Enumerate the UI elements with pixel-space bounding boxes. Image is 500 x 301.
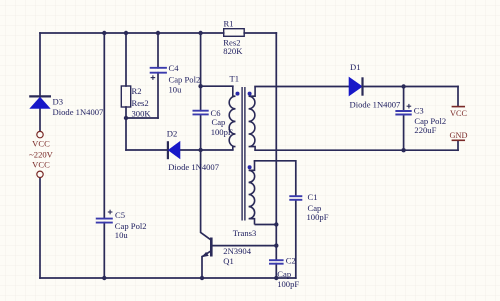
- power port GND bar: [452, 139, 465, 141]
- wire C2 top: [275, 246, 277, 261]
- svg-text:C3: C3: [414, 106, 424, 116]
- svg-text:10u: 10u: [115, 230, 129, 240]
- svg-text:100pF: 100pF: [307, 212, 329, 222]
- transformer T1 core: [242, 87, 245, 221]
- svg-text:10u: 10u: [169, 85, 183, 95]
- wire C3 top: [403, 87, 405, 112]
- wire primary bottom lead: [201, 149, 233, 151]
- wire C4 bottom lead: [157, 73, 159, 118]
- svg-text:Cap Pol2: Cap Pol2: [169, 74, 201, 84]
- wire D3 anode to terminal circle: [39, 108, 41, 131]
- svg-text:R2: R2: [132, 86, 142, 96]
- wire feedback winding bottom lead: [255, 224, 277, 226]
- svg-text:D3: D3: [53, 97, 64, 107]
- svg-text:100pF: 100pF: [211, 127, 233, 137]
- svg-text:100pF: 100pF: [277, 279, 299, 289]
- T1 polarity dot primary: [236, 92, 240, 96]
- svg-text:D2: D2: [167, 129, 178, 139]
- svg-text:D1: D1: [350, 62, 361, 72]
- power port VCC bar: [452, 106, 465, 108]
- capacitor C1: [289, 196, 302, 200]
- wire C5 branch top: [103, 33, 105, 219]
- junction bottom rail emitter: [200, 276, 204, 280]
- junction bottom rail C5: [102, 276, 106, 280]
- wire Q1 base to R1 drop: [211, 245, 276, 247]
- wire C5 bottom to rail: [103, 223, 105, 278]
- svg-text:VCC: VCC: [32, 139, 50, 149]
- diode D3: [29, 96, 51, 108]
- wire bottom rail: [40, 277, 296, 279]
- plus sign C3: [407, 104, 412, 109]
- svg-text:T1: T1: [230, 73, 240, 83]
- capacitor C2: [269, 260, 284, 264]
- wire junction down to D2 row: [125, 118, 127, 150]
- svg-text:C1: C1: [308, 192, 318, 202]
- wire D2 row right to C6 junction: [180, 149, 200, 151]
- capacitor C3: [395, 111, 411, 115]
- wire C6 bottom to junction: [200, 114, 202, 150]
- svg-text:VCC: VCC: [450, 109, 468, 118]
- wire emitter down to rail: [201, 257, 203, 278]
- wire C1 bottom riser from rail: [295, 200, 297, 278]
- wire junction to C4 bottom: [126, 117, 158, 119]
- svg-text:GND: GND: [450, 131, 468, 140]
- resistor R1: [224, 29, 245, 37]
- diode D2: [168, 141, 180, 159]
- svg-text:2N3904: 2N3904: [223, 246, 251, 256]
- svg-text:Diode 1N4007: Diode 1N4007: [350, 99, 402, 109]
- wire secondary top lead to D1: [255, 86, 349, 88]
- svg-text:820K: 820K: [223, 46, 243, 56]
- svg-text:300K: 300K: [132, 109, 152, 119]
- wire R2 bottom to junction: [125, 107, 127, 118]
- svg-text:220uF: 220uF: [414, 125, 436, 135]
- junction top rail C5: [102, 31, 106, 35]
- wire collector from C6 junction to Q1: [201, 150, 212, 240]
- wire R2 top: [125, 33, 127, 86]
- transformer T1 primary winding: [229, 86, 235, 150]
- terminal circle upper (AC input): [37, 131, 43, 137]
- wire lower winding top lead to C1: [255, 161, 296, 196]
- junction C6 bottom / D2 / primary: [198, 148, 202, 152]
- diode D1: [349, 77, 363, 96]
- svg-text:VCC: VCC: [32, 160, 50, 170]
- wire top rail right segment R1 to corner: [244, 32, 276, 34]
- capacitor C5: [96, 219, 113, 223]
- junction R2/C4: [124, 116, 128, 120]
- T1 polarity dot secondary: [248, 92, 252, 96]
- wire bottom right row: [255, 149, 458, 151]
- svg-text:~220V: ~220V: [29, 149, 54, 159]
- wire C4 top: [157, 33, 159, 68]
- plus sign C5: [108, 210, 113, 215]
- wire R1 drop vertical: [275, 33, 277, 246]
- capacitor C4: [150, 68, 167, 73]
- svg-text:Cap: Cap: [277, 269, 291, 279]
- wire C6 branch top: [200, 33, 202, 111]
- capacitor C6: [193, 111, 209, 115]
- wire C2 bottom to rail: [275, 264, 277, 278]
- transformer T1 secondary upper winding: [249, 87, 256, 151]
- junction feedback winding / base drop: [274, 222, 278, 226]
- plus sign C4: [151, 75, 156, 80]
- wire D1 cathode to VCC corner: [363, 86, 459, 88]
- T1 polarity dot feedback: [248, 165, 252, 169]
- svg-text:Diode 1N4007: Diode 1N4007: [53, 107, 105, 117]
- junction C3 bottom / rail: [401, 148, 405, 152]
- transformer T1 feedback winding: [249, 161, 255, 225]
- svg-text:Res2: Res2: [132, 98, 149, 108]
- svg-text:C4: C4: [169, 63, 180, 73]
- svg-text:R1: R1: [224, 18, 234, 28]
- junction base / C2: [274, 243, 278, 247]
- junction bottom rail C2: [274, 276, 278, 280]
- wire lower terminal down left rail: [39, 178, 41, 279]
- transistor Q1: [202, 238, 212, 258]
- svg-text:Trans3: Trans3: [233, 228, 257, 238]
- junction top rail R2: [124, 31, 128, 35]
- wire VCC drop: [457, 87, 459, 106]
- svg-text:C5: C5: [115, 210, 125, 220]
- svg-text:Q1: Q1: [223, 256, 234, 266]
- wire top rail left segment: [40, 32, 224, 34]
- wire C3 bottom: [403, 115, 405, 151]
- svg-text:Cap: Cap: [212, 117, 226, 127]
- svg-text:Diode 1N4007: Diode 1N4007: [168, 162, 220, 172]
- junction C6 top / primary: [198, 84, 202, 88]
- wire GND riser: [457, 141, 459, 150]
- wire primary top lead: [201, 85, 233, 87]
- wire left rail down to D3: [39, 33, 41, 96]
- resistor R2: [121, 86, 130, 107]
- junction top rail C6: [198, 31, 202, 35]
- terminal circle lower (AC input): [37, 171, 43, 177]
- junction top rail C4: [156, 31, 160, 35]
- svg-text:C2: C2: [286, 256, 296, 266]
- junction D1 / C3 top: [401, 84, 405, 88]
- wire D2 row left: [126, 149, 168, 151]
